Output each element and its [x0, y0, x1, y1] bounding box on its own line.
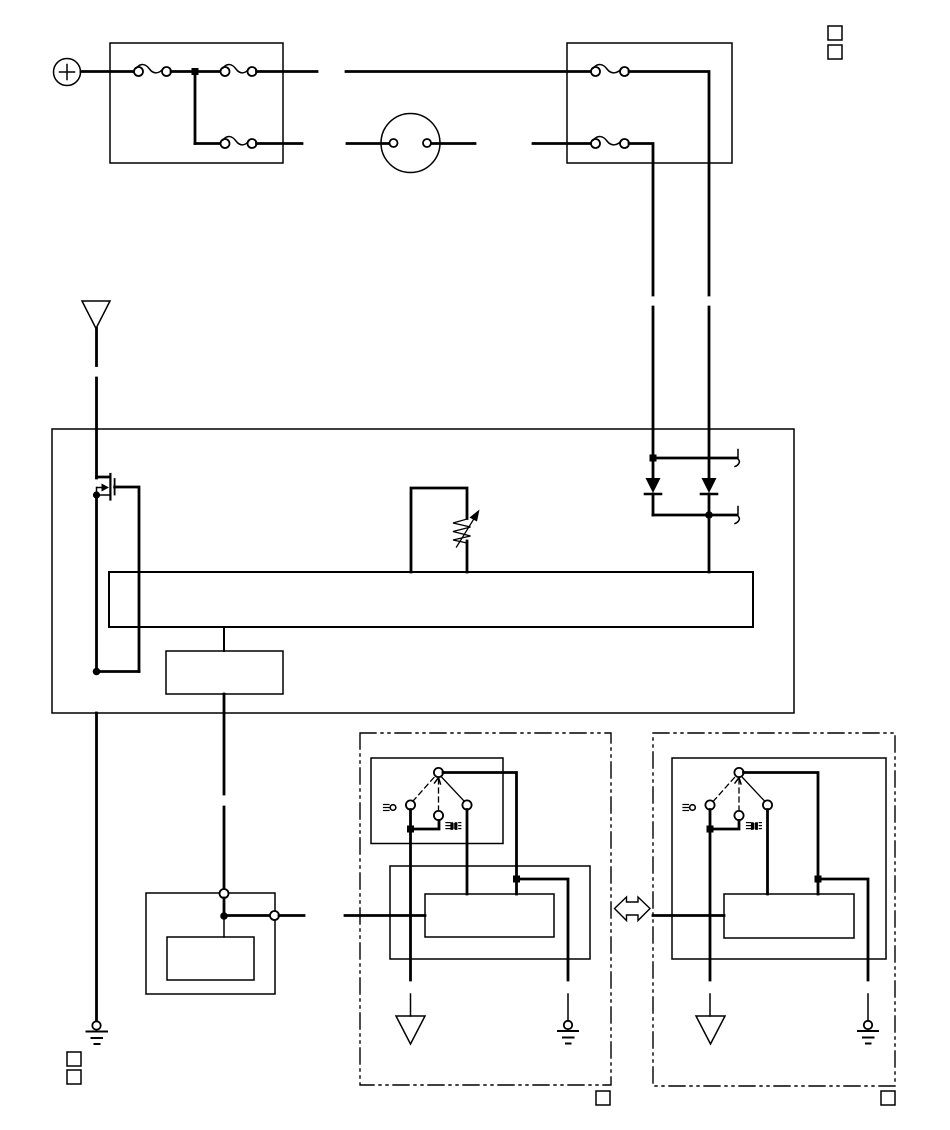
left speaker assembly dash-dot box [360, 733, 611, 1085]
wire junction to F2 [195, 70, 221, 73]
page ref square D [67, 1070, 81, 1084]
variable inductor left leg [411, 488, 467, 572]
wire sub module down [223, 694, 226, 794]
junction node J1 [192, 68, 199, 75]
ground wire left [95, 713, 98, 1021]
right speaker assembly dash-dot box [653, 733, 895, 1086]
wire to terminal hook lower [653, 514, 737, 517]
feed wire into right unit [653, 914, 724, 917]
wire junction to drain leg [97, 670, 140, 673]
wire to ignition switch [347, 142, 389, 145]
fuse box 2 (under-dash) [567, 43, 732, 163]
left switch junction [407, 826, 414, 833]
left switch position 3 circle [462, 800, 471, 809]
fuse F3 [221, 137, 257, 148]
wire x709 resumed into box [708, 307, 711, 478]
diode D2 [701, 478, 717, 572]
radio unit outer box [52, 429, 794, 713]
left speaker triangle [396, 1016, 425, 1044]
connector circle on top edge [220, 889, 229, 898]
wire x653 resumed into box [652, 307, 655, 458]
ground G1 [87, 1021, 108, 1044]
wire F3 out to break [257, 142, 303, 145]
ground G3 [858, 1021, 878, 1044]
right head lamp icon [747, 822, 762, 830]
left junction to ground wire [517, 879, 569, 980]
left junction to display [515, 879, 518, 894]
left position 3 wire [466, 810, 469, 895]
right switch wiring L [710, 810, 739, 830]
left switch position 1 circle [406, 800, 415, 809]
left light switch box [371, 758, 503, 844]
left switch common circle [434, 768, 443, 777]
right switch common wire [744, 773, 819, 880]
wire junction right [224, 914, 270, 917]
junction in radio [220, 912, 228, 920]
junction node D1 top [650, 455, 657, 462]
left head lamp icon [446, 822, 461, 830]
terminal hook lower [735, 507, 739, 524]
left tail lamp icon [384, 805, 396, 811]
wire into radio [223, 898, 226, 916]
variable inductor arrow [457, 510, 480, 548]
right switch wiper arrow [735, 778, 741, 811]
wire resumed to radio box [223, 807, 226, 889]
wire bus to sub module [223, 627, 225, 651]
main bus rectangle [109, 572, 753, 627]
right position 3 wire [766, 810, 769, 895]
fuse F5 [591, 137, 629, 148]
fuse F4 [591, 65, 629, 76]
page ref square E [596, 1091, 610, 1105]
diode D1 [645, 458, 661, 515]
fuse F1 [134, 65, 171, 76]
junction node [93, 668, 101, 676]
antenna wire lower [95, 378, 98, 478]
right speaker coil rectangle [724, 894, 854, 938]
page ref square C [67, 1052, 81, 1066]
right tail lamp icon [683, 805, 695, 811]
left switch common wire [443, 773, 517, 880]
wire to F3 [195, 142, 221, 145]
right switch solid arm [743, 778, 765, 802]
sub module rectangle [166, 651, 283, 694]
wire battery to fuse box [81, 70, 135, 73]
left switch wiper arrow [435, 778, 441, 811]
wire Q1 source down [95, 495, 98, 672]
right switch dashed arm [714, 778, 735, 801]
right combined box [672, 758, 886, 959]
wire switch out [432, 142, 476, 145]
variable inductor zigzag [453, 519, 471, 543]
wire junction to display [223, 916, 225, 937]
page ref square A [828, 26, 842, 40]
ground G2 [558, 1021, 578, 1044]
right speaker + wire resumed [709, 994, 711, 1016]
right switch position 3 circle [763, 800, 772, 809]
page ref square F [881, 1091, 895, 1105]
wire top feed resumed [346, 70, 591, 73]
left speaker amp box [390, 866, 590, 959]
fuse F2 [221, 65, 257, 76]
right switch position 1 circle [705, 800, 714, 809]
wire junction down [194, 72, 197, 144]
right switch position 2 circle [734, 811, 743, 820]
junction node D2 bottom [705, 511, 713, 519]
transistor Q1 [97, 474, 115, 500]
right switch common circle [734, 768, 743, 777]
terminal hook upper [735, 450, 739, 467]
battery B+ terminal [54, 59, 81, 86]
left switch position 2 circle [434, 811, 443, 820]
left speaker + wire [409, 829, 412, 980]
wire Q1 drain [115, 487, 139, 672]
antenna wire upper [95, 329, 98, 366]
wire resumed to fuse box 2 [533, 142, 591, 145]
right common junction [815, 876, 822, 883]
wire F4 right and down [629, 72, 709, 296]
wire F5 right and down [629, 144, 653, 296]
variable inductor right leg [466, 541, 469, 572]
connector circle on right edge [270, 911, 279, 920]
left speaker + wire resumed [410, 994, 412, 1016]
radio display rectangle [167, 937, 254, 980]
page ref square B [828, 45, 842, 59]
right ground wire resumed [867, 994, 869, 1021]
fuse box 1 (under-hood) [110, 43, 283, 163]
junction at Q1 source [93, 491, 100, 498]
left speaker coil rectangle [425, 894, 554, 937]
right junction to ground wire [818, 879, 868, 980]
ignition switch connector [381, 114, 440, 173]
wire F1 to junction [171, 70, 195, 73]
right junction to coil [817, 879, 820, 894]
left switch solid arm [442, 778, 464, 802]
left common junction [513, 876, 520, 883]
wire F2 out to break [257, 70, 318, 73]
wire out right [279, 914, 304, 917]
radio sub-unit box [146, 893, 275, 994]
right speaker triangle [696, 1016, 725, 1044]
left switch dashed arm [414, 778, 435, 801]
feed wire into left unit [345, 914, 425, 917]
inter-unit double arrow [615, 897, 651, 921]
left ground wire resumed [567, 994, 569, 1021]
right switch junction [707, 826, 714, 833]
antenna [82, 301, 110, 329]
right speaker + wire [709, 829, 712, 980]
left switch wiring L [411, 810, 440, 830]
wire to terminal hook upper [653, 457, 737, 460]
